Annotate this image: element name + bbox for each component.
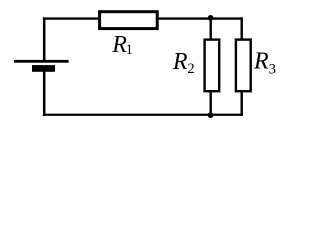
resistor R3 [236,40,251,92]
wire bottom horizontal [43,114,243,116]
wire left vertical lower [43,71,46,116]
resistor R2 [205,40,220,92]
svg-text:R1: R1 [111,32,133,58]
node junction dot top [208,15,214,21]
resistor R1 [100,12,158,29]
svg-text:R3: R3 [253,49,276,78]
node junction dot bottom [208,112,214,118]
wire R2 branch vertical [209,17,211,116]
wire left vertical upper [43,17,46,60]
svg-text:R2: R2 [172,49,195,77]
battery B1 bottom plate (short, negative) [32,65,55,72]
battery B1 top plate (long, positive) [14,60,69,63]
wire R3 branch vertical [240,17,242,116]
wire top horizontal [43,17,243,19]
